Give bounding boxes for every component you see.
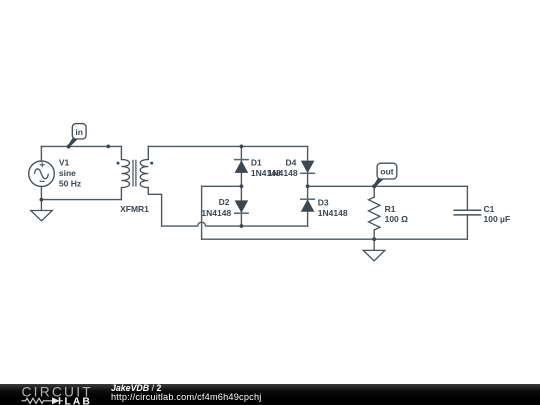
wire C1 bottom stem [466, 215, 468, 239]
resistor R1 [369, 197, 380, 230]
net flag in [68, 124, 86, 147]
diode D4 [300, 161, 315, 174]
wire left bridge branch [240, 146, 242, 226]
wire top-left rail V1 to XFMR1 primary [41, 145, 121, 147]
wire right bridge branch [307, 146, 309, 226]
ground under R1 [363, 239, 385, 261]
wire V1 top lead [40, 146, 42, 161]
wire secondary bottom routing [148, 188, 161, 227]
wire mid-right to out node and C1 [308, 185, 468, 187]
svg-text:100 µF: 100 µF [484, 214, 511, 224]
footer bar [0, 384, 540, 405]
junction dot R1 bottom [372, 237, 376, 241]
svg-text:D3: D3 [318, 197, 329, 207]
junction dot bridge top [240, 145, 244, 149]
diode D1 [234, 160, 249, 173]
V1 value labels [59, 158, 81, 189]
svg-text:R1: R1 [385, 204, 396, 214]
wire top rail secondary to bridge [148, 145, 307, 147]
svg-text:D4: D4 [286, 158, 297, 168]
wire mid-left vertical down [201, 186, 203, 239]
svg-text:XFMR1: XFMR1 [120, 204, 149, 214]
svg-text:1N4148: 1N4148 [318, 208, 348, 218]
svg-text:1N4148: 1N4148 [201, 208, 231, 218]
svg-text:D1: D1 [251, 158, 262, 168]
wire R1 top lead [373, 186, 375, 197]
net flag out [373, 163, 397, 187]
wire primary top lead [120, 146, 122, 159]
wire lower return line [202, 238, 468, 240]
footer byline [111, 384, 161, 392]
junction dot R1 top [372, 184, 376, 188]
svg-text:out: out [380, 167, 393, 177]
svg-text:1N4148: 1N4148 [268, 168, 298, 178]
wire bottom-left V1 to primary [41, 199, 121, 201]
svg-text:in: in [75, 127, 83, 137]
junction dot top-left rail [106, 145, 110, 149]
transformer phase dot secondary [150, 162, 153, 165]
diode D3 [300, 199, 315, 212]
ground under V1 [31, 200, 53, 221]
node in junction dot [67, 144, 71, 148]
transformer XFMR1 [121, 160, 148, 188]
svg-text:V1: V1 [59, 158, 70, 168]
wire C1 top stem [466, 186, 468, 210]
transformer phase dot primary [117, 162, 120, 165]
wire bottom rail with hop over vertical [162, 222, 308, 226]
svg-text:sine: sine [59, 168, 76, 178]
wire mid-left to D1 D2 node [202, 185, 242, 187]
wire R1 bottom lead [373, 230, 375, 239]
voltage source V1 [29, 161, 55, 187]
CircuitLab logo [21, 385, 111, 405]
capacitor C1 [453, 210, 481, 215]
svg-text:50 Hz: 50 Hz [59, 179, 81, 189]
svg-text:D2: D2 [219, 197, 230, 207]
wire primary bottom lead [120, 188, 122, 200]
svg-text:C1: C1 [484, 204, 495, 214]
junction dot bridge bottom [240, 224, 244, 228]
wire secondary top lead [147, 146, 149, 159]
wire V1 bottom lead [40, 186, 42, 199]
junction dot V1 ground [40, 198, 44, 202]
svg-text:LAB: LAB [65, 396, 93, 405]
svg-text:100 Ω: 100 Ω [385, 214, 409, 224]
diode D2 [234, 200, 249, 213]
footer url [111, 392, 262, 402]
junction dot bridge mid-left [240, 184, 244, 188]
junction dot bridge mid-right [306, 184, 310, 188]
